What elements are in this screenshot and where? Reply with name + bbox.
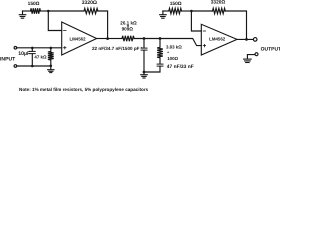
resistor R1 150 ohm: [31, 8, 41, 13]
node A junction dot: [47, 10, 50, 13]
resistor R6 150 ohm: [169, 8, 182, 13]
ground G5 (output return): [244, 59, 252, 62]
junction dot ground mid: [143, 71, 146, 74]
junction dot R3 bottom: [50, 65, 53, 68]
node F junction dot: [159, 37, 162, 40]
wire R1 to node A: [40, 10, 48, 12]
op-amp U2 LM4562: [201, 24, 237, 55]
svg-text:22 nF/34.7 nF/1500 pF *: 22 nF/34.7 nF/1500 pF *: [92, 46, 143, 51]
svg-text:150Ω: 150Ω: [28, 1, 40, 7]
resistor R5 3.83k / 100 ohm: [157, 39, 163, 64]
node G junction dot: [190, 10, 193, 13]
wire node A to R2: [48, 10, 84, 12]
svg-text:3320Ω: 3320Ω: [211, 0, 226, 6]
svg-text:INPUT: INPUT: [0, 56, 16, 62]
wire U1 output to node D: [97, 38, 108, 40]
wire node A down to inverting input: [48, 11, 61, 31]
wire node D to R4: [108, 38, 122, 40]
junction dot C1 bottom: [31, 65, 34, 68]
capacitor C1 10uF: [29, 48, 35, 66]
capacitor C3 47nF/33nF: [144, 64, 163, 72]
resistor R2 3320 ohm: [84, 8, 98, 13]
wire R7 to feedback corner stage 2: [225, 11, 246, 39]
node H junction dot: [245, 38, 248, 41]
svg-text:3320Ω: 3320Ω: [82, 0, 97, 6]
wire input to op-amp +: [17, 47, 62, 49]
svg-text:26.1 kΩ: 26.1 kΩ: [120, 21, 137, 26]
wire R6 to node G: [182, 10, 192, 12]
wire output return to ground: [247, 55, 255, 59]
svg-text:47 kΩ: 47 kΩ: [34, 55, 47, 60]
wire ground to R1: [23, 10, 31, 12]
svg-text:LM4562: LM4562: [209, 37, 226, 42]
output ground terminal: [255, 53, 258, 56]
wire node F to U2 + input: [160, 39, 201, 46]
svg-text:Note: 1% metal film resistors,: Note: 1% metal film resistors, 5% polypr…: [19, 87, 149, 92]
resistor R3 47k: [48, 48, 54, 66]
capacitor C2 22nF/34.7nF/1500pF: [141, 39, 147, 73]
resistor R7 3320 ohm: [213, 8, 226, 13]
output terminal: [253, 38, 257, 42]
wire U2 output: [237, 38, 253, 40]
input terminal top: [14, 47, 17, 50]
wire ground to R6: [163, 10, 169, 12]
svg-text:3.83 kΩ: 3.83 kΩ: [166, 45, 182, 50]
wire R2 to feedback corner: [98, 11, 108, 39]
ground G1 (stage 1 input bias): [19, 11, 26, 18]
wire node G down to U2 inverting input: [191, 11, 201, 31]
ground G3 (filter shunt): [141, 72, 148, 78]
node B junction dot: [31, 47, 34, 50]
input terminal bottom: [14, 65, 17, 68]
resistor R4 26.1k / 909 ohm: [122, 36, 134, 41]
label R4 asterisk: [127, 25, 129, 27]
svg-text:150Ω: 150Ω: [170, 1, 182, 7]
node C junction dot: [50, 47, 53, 50]
svg-text:47 nF/33 nF: 47 nF/33 nF: [167, 64, 194, 70]
svg-text:LM4562: LM4562: [69, 37, 86, 42]
wire R4 to node F: [134, 38, 160, 40]
ground G2 (input return): [48, 66, 54, 73]
node D junction dot: [106, 37, 109, 40]
svg-text:*: *: [167, 51, 169, 56]
svg-text:OUTPUT: OUTPUT: [261, 47, 280, 53]
op-amp U1 LM4562: [62, 22, 97, 55]
wire input return: [17, 65, 51, 67]
ground G4 (stage 2 bias): [160, 11, 167, 18]
svg-text:100Ω: 100Ω: [167, 56, 178, 61]
wire node G to R7: [191, 10, 212, 12]
svg-text:10µF: 10µF: [18, 51, 30, 57]
node E junction dot: [143, 37, 146, 40]
svg-text:909Ω: 909Ω: [122, 27, 134, 32]
